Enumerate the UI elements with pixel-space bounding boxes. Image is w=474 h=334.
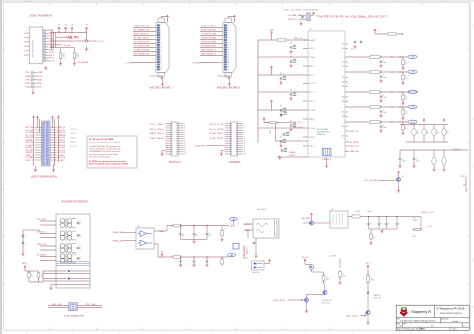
svg-text:HDMI: HDMI: [25, 76, 30, 78]
svg-text:5K1: 5K1: [76, 56, 79, 58]
svg-text:1 of 1: 1 of 1: [452, 329, 457, 331]
svg-text:AUD_PWM: AUD_PWM: [26, 126, 34, 129]
svg-text:LED_PW: LED_PW: [217, 129, 223, 131]
svg-text:SD_DAT3S: SD_DAT3S: [350, 141, 360, 144]
svg-text:16: 16: [227, 62, 229, 64]
svg-text:AUD_P: AUD_P: [309, 65, 316, 68]
svg-text:13: 13: [160, 54, 162, 56]
svg-text:www.raspberrypi.org: www.raspberrypi.org: [440, 312, 462, 315]
svg-text:LED_P: LED_P: [309, 101, 316, 103]
svg-text:TVDACT: TVDACT: [150, 137, 157, 140]
svg-text:GLOBA: GLOBA: [309, 109, 316, 112]
svg-text:13: 13: [244, 149, 246, 151]
svg-text:10: 10: [160, 47, 162, 49]
svg-text:12: 12: [184, 147, 186, 149]
svg-text:AUD_PWM1AUD_PW: AUD_PWM1AUD_PW: [134, 29, 149, 32]
svg-text:CC_AD: CC_AD: [309, 127, 315, 130]
svg-text:STATUS_LEDSTAT: STATUS_LEDSTAT: [201, 37, 217, 40]
svg-text:SD_CL: SD_CL: [309, 92, 316, 94]
svg-text:*ACT LED: *ACT LED: [373, 296, 382, 299]
svg-text:9: 9: [73, 1, 74, 3]
svg-text:NF: NF: [196, 235, 198, 237]
svg-text:PWM0_AUD: PWM0_AUD: [113, 231, 125, 234]
svg-text:MICRO HDMI 0: MICRO HDMI 0: [217, 86, 241, 89]
svg-text:WL_ON: WL_ON: [302, 257, 308, 259]
svg-text:F: F: [437, 130, 438, 132]
svg-text:10: 10: [184, 143, 186, 145]
svg-text:rails unless with specific pow: rails unless with specific power budget: [89, 153, 118, 156]
svg-text:HDMI_TX2: HDMI_TX2: [37, 244, 47, 246]
svg-text:14: 14: [160, 57, 162, 59]
svg-text:12: 12: [160, 52, 162, 54]
svg-text:+5_HDMI: +5_HDMI: [125, 62, 134, 64]
svg-text:13: 13: [184, 149, 186, 151]
svg-text:WL_ONWL_ONWL_O: WL_ONWL_ONWL_O: [134, 38, 149, 40]
svg-text:SDA0SD: SDA0SD: [150, 132, 157, 135]
svg-text:+5_HDMI: +5_HDMI: [192, 62, 201, 64]
svg-text:SDA0S: SDA0S: [309, 39, 316, 42]
svg-text:330: 330: [326, 279, 329, 281]
svg-text:SDA0: SDA0: [25, 86, 31, 89]
svg-text:TR0_TAPT: TR0_TAPT: [37, 218, 47, 221]
svg-text:CAM1_DN0CAM1_D: CAM1_DN0CAM1_D: [201, 53, 216, 56]
svg-text:GPIO: GPIO: [25, 80, 30, 82]
svg-text:Raspberry Pi 4 Model B (Reduce: Raspberry Pi 4 Model B (Reduced Sch): [400, 321, 435, 323]
svg-text:10: 10: [227, 47, 229, 49]
svg-text:SDA0S: SDA0S: [290, 151, 297, 154]
svg-text:+CAM_GPIO: +CAM_GPIO: [194, 144, 206, 147]
svg-text:22uF: 22uF: [413, 236, 417, 238]
svg-text:19: 19: [227, 69, 229, 71]
svg-text:+1V8: +1V8: [410, 72, 414, 74]
svg-text:SD_CLK: SD_CLK: [210, 129, 217, 131]
svg-text:10uF: 10uF: [383, 62, 387, 64]
svg-text:CAM1: CAM1: [37, 79, 43, 82]
svg-text:VBUS_E: VBUS_E: [217, 133, 224, 135]
svg-text:1: 1: [445, 1, 446, 3]
svg-text:wired to GPIO banks. For all p: wired to GPIO banks. For all pins take o…: [89, 148, 120, 151]
svg-text:SD_DA: SD_DA: [71, 145, 78, 148]
svg-text:1: 1: [464, 325, 465, 327]
svg-text:2: 2: [399, 1, 400, 3]
svg-text:CC_ADCCC_ADCCC: CC_ADCCC_ADCCC: [201, 25, 216, 28]
svg-text:TR0_: TR0_: [25, 72, 31, 74]
svg-text:C 100n: C 100n: [366, 211, 372, 213]
svg-text:18: 18: [160, 67, 162, 69]
svg-text:14: 14: [244, 152, 246, 154]
svg-text:+L_5V: +L_5V: [427, 226, 433, 228]
svg-text:SD_DAT3SD_DAT3: SD_DAT3SD_DAT3: [201, 45, 217, 48]
svg-text:SD_DAT3S: SD_DAT3S: [37, 254, 47, 257]
svg-text:CC_ADC: CC_ADC: [210, 137, 217, 140]
svg-text:SD_DAT3: SD_DAT3: [26, 156, 35, 159]
svg-text:WL_ON: WL_ON: [309, 83, 315, 85]
svg-text:15: 15: [244, 154, 246, 156]
svg-text:GLOBAL: GLOBAL: [210, 132, 217, 135]
svg-text:AUD_PWM: AUD_PWM: [302, 217, 310, 220]
svg-text:75: 75: [373, 238, 375, 240]
svg-text:PoE HEADER: PoE HEADER: [64, 315, 85, 318]
svg-text:USB-C POWER IN: USB-C POWER IN: [29, 14, 52, 18]
svg-text:R5: R5: [76, 54, 78, 56]
svg-text:11: 11: [227, 50, 229, 52]
svg-text:13: 13: [227, 54, 229, 56]
svg-text:GPIO_27: GPIO_27: [26, 160, 35, 162]
svg-text:WL_ON: WL_ON: [49, 61, 55, 63]
svg-text:RUN_P: RUN_P: [309, 48, 316, 50]
svg-text:STAT: STAT: [37, 71, 43, 74]
svg-text:LED: LED: [24, 37, 26, 39]
svg-text:11: 11: [184, 145, 186, 147]
svg-text:TVDAC: TVDAC: [49, 51, 55, 54]
svg-text:Raspberry Pi: Raspberry Pi: [412, 310, 432, 314]
svg-text:and CM4/BCM2711 it is with cur: and CM4/BCM2711 it is with current GPIO: [89, 150, 121, 153]
svg-text:STATUS_L: STATUS_L: [322, 158, 332, 161]
svg-text:10uF: 10uF: [383, 112, 387, 114]
svg-text:QFN32 5x5: QFN32 5x5: [317, 134, 326, 136]
svg-text:GPIO_2: GPIO_2: [150, 124, 157, 126]
svg-text:TR0_T: TR0_T: [309, 146, 316, 148]
svg-text:12: 12: [244, 147, 246, 149]
svg-text:VBU: VBU: [24, 46, 26, 48]
svg-text:USB_OTG_I: USB_OTG_I: [293, 122, 303, 124]
svg-text:PWR_: PWR_: [86, 304, 91, 306]
svg-text:ETH_S: ETH_S: [461, 176, 468, 178]
svg-text:TVDACT: TVDACT: [244, 229, 252, 232]
svg-text:TVDACTVDACTVDA: TVDACTVDACTVDA: [134, 25, 149, 28]
svg-text:EXTRS: EXTRS: [71, 129, 78, 131]
svg-text:RUN_PG: RUN_PG: [158, 133, 165, 135]
svg-text:AUD_P: AUD_P: [49, 54, 55, 57]
svg-text:A/V JACK: A/V JACK: [257, 208, 267, 211]
svg-text:PWR_LOW_: PWR_LOW_: [294, 38, 304, 40]
svg-text:10uF: 10uF: [383, 127, 387, 129]
svg-text:U6: U6: [331, 209, 333, 211]
svg-text:+5V_AT: +5V_AT: [63, 44, 71, 47]
svg-text:14: 14: [227, 57, 229, 59]
svg-text:PWM1_AUD: PWM1_AUD: [113, 239, 125, 242]
svg-text:R4: R4: [62, 54, 64, 56]
svg-text:USB_: USB_: [25, 83, 31, 85]
svg-text:*RED LED): *RED LED): [322, 302, 331, 304]
svg-text:3V_AT and 5V_AT ITEM:: 3V_AT and 5V_AT ITEM:: [89, 138, 114, 141]
svg-text:EXTRST_NEXTRST: EXTRST_NEXTRST: [201, 30, 217, 32]
svg-text:RUN_: RUN_: [37, 87, 43, 89]
svg-text:Sheet: Sheet: [421, 328, 426, 331]
svg-text:ETH_SYNCETH_SY: ETH_SYNCETH_SY: [134, 34, 149, 36]
svg-text:+WL_ON_REG: +WL_ON_REG: [364, 180, 378, 182]
svg-text:TP7: TP7: [413, 218, 416, 220]
svg-text:10: 10: [26, 1, 28, 3]
svg-text:10: 10: [244, 143, 246, 145]
svg-text:Rev: Rev: [404, 323, 407, 325]
svg-text:6: 6: [212, 1, 213, 3]
svg-text:F: F: [472, 72, 473, 74]
svg-text:15: 15: [160, 59, 162, 61]
svg-text:+3V3: +3V3: [410, 57, 414, 59]
svg-text:CAM1_D: CAM1_D: [158, 123, 165, 126]
svg-text:ETH_S: ETH_S: [309, 75, 316, 77]
svg-text:+RUN_PG: +RUN_PG: [288, 19, 298, 21]
svg-text:PWR_LED_N: PWR_LED_N: [273, 300, 286, 302]
svg-text:STATUS_L: STATUS_L: [37, 231, 47, 234]
svg-text:with particular board projects: with particular board projects.: [89, 155, 112, 158]
svg-text:PWR_: PWR_: [37, 83, 43, 85]
svg-text:PWR_IN_5V: PWR_IN_5V: [92, 41, 104, 43]
svg-text:1.0: 1.0: [431, 325, 434, 327]
svg-text:TVDAC: TVDAC: [309, 56, 315, 59]
svg-text:100n: 100n: [416, 161, 420, 163]
svg-text:GLO: GLO: [24, 42, 26, 44]
svg-text:GPIO EXPANSION: GPIO EXPANSION: [31, 176, 57, 179]
svg-text:3V_AT/5V pins may be powered f: 3V_AT/5V pins may be powered from either: [89, 160, 126, 163]
svg-text:11: 11: [160, 50, 162, 52]
svg-text:4: 4: [306, 1, 307, 3]
svg-text:HDMI_TX2: HDMI_TX2: [350, 131, 360, 133]
svg-text:SD_CLKSD_CLKSD: SD_CLKSD_CLKSD: [134, 42, 149, 44]
svg-text:100n: 100n: [402, 161, 406, 163]
svg-text:14: 14: [184, 152, 186, 154]
svg-text:TR0_TAPTR0_TAP: TR0_TAPTR0_TAP: [201, 33, 217, 36]
svg-text:CAM1: CAM1: [52, 303, 57, 306]
svg-text:GIGABIT ETHERNET: GIGABIT ETHERNET: [61, 200, 89, 203]
svg-text:EXTRS: EXTRS: [309, 137, 316, 139]
svg-text:AUDIO_OUT: AUDIO_OUT: [422, 211, 434, 214]
svg-text:+5B_5V: +5B_5V: [66, 35, 80, 39]
svg-text:ACT_LED_N: ACT_LED_N: [347, 315, 359, 318]
svg-text:+VDD_CORE: +VDD_CORE: [407, 92, 419, 94]
svg-text:15: 15: [184, 154, 186, 156]
svg-text:TR0_T: TR0_T: [71, 133, 78, 135]
svg-text:RUN_P: RUN_P: [290, 155, 297, 157]
svg-text:15: 15: [227, 59, 229, 61]
svg-text:16: 16: [160, 62, 162, 64]
svg-text:12: 12: [227, 52, 229, 54]
svg-text:SD_C: SD_C: [366, 263, 371, 265]
svg-text:+5_SYS: +5_SYS: [329, 256, 337, 258]
svg-text:F: F: [417, 130, 418, 132]
svg-text:On-board 3V3A, 5V0, 1V8 signal: On-board 3V3A, 5V0, 1V8 signaling is not: [89, 145, 121, 148]
svg-text:5K1: 5K1: [62, 56, 65, 58]
svg-text:TVDACTV: TVDACTV: [453, 148, 462, 151]
svg-text:ETH_S: ETH_S: [49, 58, 55, 60]
svg-text:+GLOBAL_EN: +GLOBAL_EN: [288, 14, 302, 17]
svg-text:+2V5: +2V5: [410, 107, 414, 109]
svg-text:18: 18: [227, 67, 229, 69]
svg-text:HDMI_: HDMI_: [71, 142, 78, 144]
svg-text:Q7: Q7: [402, 176, 404, 178]
svg-text:PWR_LOW_N: PWR_LOW_N: [293, 127, 303, 129]
svg-text:HDMI_TX2_PHDMI: HDMI_TX2_PHDMI: [201, 42, 216, 44]
svg-text:+AUD: +AUD: [230, 224, 236, 227]
svg-text:PWR_LO: PWR_LO: [158, 129, 165, 131]
svg-text:7: 7: [166, 1, 167, 3]
svg-text:NF: NF: [182, 235, 184, 237]
svg-text:NF: NF: [209, 235, 211, 237]
svg-text:USB_: USB_: [58, 304, 63, 306]
svg-text:DISPLAY: DISPLAY: [169, 161, 182, 164]
svg-text:8: 8: [119, 1, 120, 3]
svg-text:+1V1: +1V1: [410, 122, 414, 124]
svg-text:U10: U10: [137, 226, 140, 228]
svg-text:19: 19: [160, 69, 162, 71]
svg-text:GLOBAL_ENGLOBA: GLOBAL_ENGLOBA: [134, 49, 149, 52]
svg-text:CTRL_GLOBAL_EN DESIGN: CTRL_GLOBAL_EN DESIGN: [282, 8, 319, 11]
svg-text:GPIO_: GPIO_: [22, 263, 29, 265]
svg-text:STATUS_: STATUS_: [26, 151, 35, 154]
svg-text:17: 17: [227, 64, 229, 66]
svg-text:ETH_SY: ETH_SY: [210, 124, 217, 126]
svg-text:10uF: 10uF: [383, 77, 387, 79]
svg-text:5: 5: [259, 1, 260, 3]
svg-text:LED_PWRLED_PWR: LED_PWRLED_PWR: [134, 46, 149, 48]
svg-text:USB TYPE C RECEPT: USB TYPE C RECEPT: [33, 39, 35, 58]
svg-text:F: F: [427, 130, 428, 132]
svg-text:3: 3: [352, 1, 353, 3]
svg-text:SDA0: SDA0: [92, 303, 97, 306]
svg-text:SD_D: SD_D: [37, 76, 43, 78]
svg-text:ETH_LEDS: ETH_LEDS: [244, 246, 246, 256]
svg-text:**NOTE DYN IO VIL GLOBAL_EN IS: **NOTE DYN IO VIL GLOBAL_EN IS 1V**: [316, 15, 387, 18]
svg-text:WL_ONW: WL_ONW: [217, 124, 223, 126]
svg-text:CAMERA: CAMERA: [229, 161, 242, 164]
svg-text:AUD_PW: AUD_PW: [158, 137, 164, 140]
svg-text:330: 330: [371, 280, 374, 282]
svg-text:VBUS_: VBUS_: [309, 119, 316, 121]
svg-text:CAM1_DN0: CAM1_DN0: [350, 150, 360, 153]
svg-text:F: F: [1, 72, 2, 74]
svg-text:LAN LEDs: LAN LEDs: [252, 271, 260, 274]
svg-text:GPIO_27GPIO_27: GPIO_27GPIO_27: [201, 50, 217, 52]
svg-text:EXTRST: EXTRST: [217, 138, 224, 140]
svg-text:U3: U3: [309, 29, 311, 31]
svg-text:STATU: STATU: [71, 136, 77, 139]
svg-text:MICRO HDMI 1: MICRO HDMI 1: [150, 86, 174, 89]
svg-text:© Raspberry Pi 2018: © Raspberry Pi 2018: [437, 307, 465, 311]
svg-text:11: 11: [244, 145, 246, 147]
svg-text:F: F: [447, 130, 448, 132]
svg-text:PD_SENSE: PD_SENSE: [78, 62, 89, 64]
svg-text:C77: C77: [351, 49, 354, 51]
svg-text:10uF: 10uF: [383, 97, 387, 99]
svg-text:Custom: Custom: [452, 320, 459, 323]
svg-text:VIDEO: VIDEO: [413, 220, 419, 222]
svg-text:17: 17: [160, 64, 162, 66]
svg-text:downstream/5V & 3 amps attache: downstream/5V & 3 amps attached/max/GPIO: [89, 163, 128, 166]
svg-text:GPIO_27G: GPIO_27G: [350, 146, 359, 148]
svg-text:USB_OT: USB_OT: [150, 129, 157, 131]
svg-text:USB_: USB_: [270, 29, 275, 31]
svg-text:VBUS_ENVBUS_EN: VBUS_ENVBUS_EN: [134, 54, 149, 56]
